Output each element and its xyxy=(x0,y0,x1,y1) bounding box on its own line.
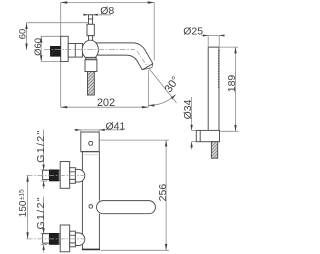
arrow 256 bottom xyxy=(165,244,167,250)
spout outer line xyxy=(96,43,153,64)
bracket divider faint lower line xyxy=(82,154,99,156)
lower valve centerline xyxy=(27,238,86,240)
G12 upper leader bottom xyxy=(43,181,45,189)
G12 upper leader top xyxy=(43,130,45,170)
lower valve nipple (dark) xyxy=(49,233,58,244)
column right edge upper xyxy=(98,152,100,201)
dim D41 line xyxy=(74,129,124,131)
svg-text:60: 60 xyxy=(18,29,29,40)
spout mouth inner ring xyxy=(142,64,153,70)
svg-text:202: 202 xyxy=(97,97,115,109)
overall top dimension line xyxy=(61,2,155,4)
dim D60 ext top xyxy=(41,35,61,37)
arrow D8 right xyxy=(93,14,98,16)
svg-text:189: 189 xyxy=(226,75,238,93)
30deg arc xyxy=(148,95,175,106)
arrow D41 right outside xyxy=(99,129,105,131)
upper valve nipple (dark) xyxy=(49,170,58,181)
valve stacks (drawn over column edges) xyxy=(43,162,85,252)
capsule (spout front view) xyxy=(97,201,156,214)
arrow D25 right xyxy=(219,35,224,37)
upper valve pipe xyxy=(43,170,50,179)
shower handle cylinder xyxy=(208,47,219,130)
lower valve stem ribs xyxy=(70,235,76,243)
dim D41 ext left xyxy=(80,130,82,132)
svg-text:Ø8: Ø8 xyxy=(100,5,114,17)
arrow top-dim left xyxy=(61,1,67,3)
arrow 202 left xyxy=(61,106,67,108)
dim D8 leader line xyxy=(84,14,111,16)
arrow 60 bottom xyxy=(25,44,27,50)
dim 189 ext bottom xyxy=(220,130,238,132)
column left edge xyxy=(81,152,83,250)
valve centerlines xyxy=(27,175,86,239)
arrow 150 top xyxy=(26,175,28,181)
wall extension line xyxy=(60,3,62,108)
dim D25 line xyxy=(202,35,225,37)
arrow D34 top xyxy=(190,125,192,131)
lower valve washer xyxy=(59,234,60,244)
bracket divider xyxy=(81,151,100,153)
bend axis centerline xyxy=(137,51,147,66)
dim D25 ext left xyxy=(207,36,209,47)
upper valve knob xyxy=(75,169,84,182)
parts view A xyxy=(61,15,153,95)
dim 256 ext top xyxy=(100,139,169,141)
svg-text:G1/2": G1/2" xyxy=(35,196,47,230)
arrow 202 right xyxy=(142,106,149,108)
bracket screw hole xyxy=(89,141,93,145)
handle tip stem xyxy=(89,15,93,24)
svg-text:256: 256 xyxy=(157,184,169,202)
dim D60 line xyxy=(40,36,42,61)
arrow D34 bottom xyxy=(190,142,192,148)
svg-text:G1/2": G1/2" xyxy=(35,129,47,163)
G12 upper ext bottom xyxy=(41,180,47,182)
column right edge lower xyxy=(98,214,100,250)
lower valve pipe xyxy=(43,234,50,243)
upper valve stem ribs xyxy=(70,172,76,180)
in-wall block xyxy=(50,46,60,56)
arrow G12 upper bottom xyxy=(42,181,44,186)
dim 189 ext top xyxy=(220,46,239,48)
hose (hatched) xyxy=(88,72,95,96)
dim D34 line lower xyxy=(191,142,193,150)
dim D25 ext right xyxy=(218,36,220,47)
spout tip extension line xyxy=(153,3,155,61)
head cap divider xyxy=(199,130,201,141)
dim 189 line xyxy=(235,47,237,131)
svg-text:Ø34: Ø34 xyxy=(182,99,194,119)
body hole 2 xyxy=(89,205,93,209)
arrow D41 left outside xyxy=(75,129,81,131)
spout mouth face xyxy=(142,64,153,70)
valve body (ellipse) xyxy=(82,40,98,59)
spout inner line xyxy=(97,55,142,70)
wall flange xyxy=(61,36,68,61)
cup ring below body xyxy=(86,57,97,59)
arrow 150 bottom xyxy=(26,232,28,238)
threaded stub (hatched) xyxy=(211,142,217,159)
arrows view A xyxy=(25,1,175,108)
svg-text:Ø41: Ø41 xyxy=(106,120,126,132)
dim D41 ext right xyxy=(98,130,100,132)
dim D34 ext bottom xyxy=(192,141,197,143)
lower valve knob xyxy=(75,233,84,246)
dim 256 line xyxy=(165,140,167,250)
30deg vertical reference line xyxy=(147,70,149,107)
G12 upper ext top xyxy=(41,169,47,171)
lower valve escutcheon xyxy=(60,225,69,252)
cup body xyxy=(85,60,97,72)
body column xyxy=(81,132,100,249)
dim D60 ext bottom xyxy=(41,61,61,63)
G12 lower ext top xyxy=(41,232,47,234)
arrow D8 left xyxy=(83,14,88,16)
arrow 60 top xyxy=(25,23,27,29)
dim D34 ext top xyxy=(192,129,197,131)
arrow D25 left xyxy=(203,35,208,37)
dim 60 extension line (handle top) xyxy=(27,22,89,24)
bracket left edge xyxy=(80,132,82,152)
arrow G12 upper top xyxy=(42,165,44,170)
upper valve washer xyxy=(59,170,60,180)
arrow 189 bottom xyxy=(234,125,236,131)
neck xyxy=(68,44,82,58)
arrow arc bottom xyxy=(148,104,154,106)
arrow D60 top xyxy=(40,36,42,42)
arrow 256 top xyxy=(165,140,167,146)
G12 lower leader top xyxy=(43,197,45,234)
internal dashed line xyxy=(218,50,220,88)
texts view A xyxy=(18,5,182,109)
dim 150 line xyxy=(27,175,29,238)
body bottom edge (thick) xyxy=(82,248,100,250)
dims first xyxy=(28,130,169,253)
dim D34 line upper xyxy=(191,97,193,130)
centerlines view A xyxy=(44,50,147,67)
arrow G12 lower top xyxy=(42,228,44,233)
arrow D60 bottom xyxy=(40,55,42,61)
handle grip xyxy=(87,24,94,35)
handle lower stem xyxy=(89,36,93,41)
G12 lower ext bottom xyxy=(41,244,47,246)
dim 256 ext bottom xyxy=(101,249,169,251)
lower valve stem xyxy=(70,231,76,247)
neck ring xyxy=(74,44,76,58)
dim 60 line xyxy=(26,23,28,50)
arrow arc top xyxy=(171,95,176,100)
horizontal centerline xyxy=(44,49,135,51)
arrow 189 top xyxy=(234,47,236,53)
svg-text:Ø60: Ø60 xyxy=(33,38,44,56)
upper valve escutcheon xyxy=(60,162,69,189)
svg-text:Ø25: Ø25 xyxy=(183,26,203,38)
upper valve centerline xyxy=(27,174,86,176)
G12 lower leader bottom xyxy=(43,245,45,253)
body top edge xyxy=(81,131,99,133)
upper valve stem xyxy=(70,168,76,184)
arrow G12 lower bottom xyxy=(42,245,44,250)
arrow top-dim right xyxy=(148,1,155,3)
30deg diagonal reference line xyxy=(149,68,177,103)
shower head body xyxy=(196,130,219,141)
bracket right edge xyxy=(98,132,100,152)
dim 202 line xyxy=(61,106,149,108)
